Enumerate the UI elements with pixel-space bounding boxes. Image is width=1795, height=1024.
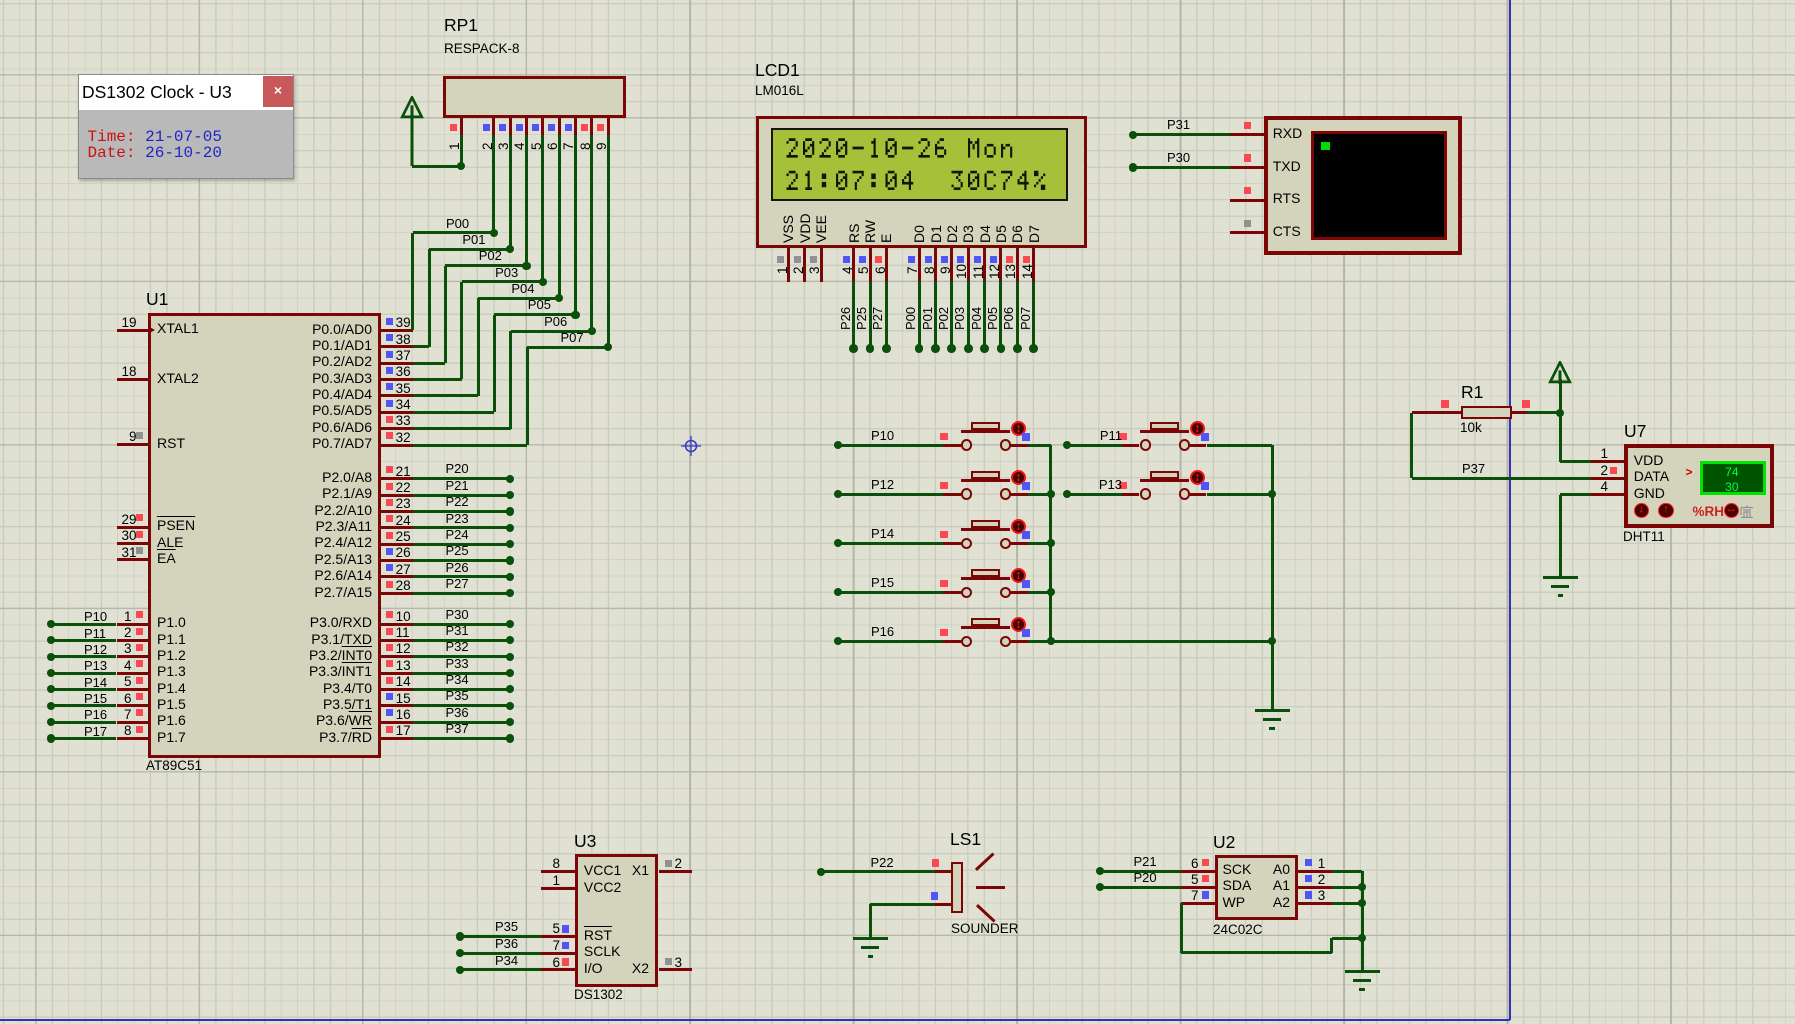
U3 pin 1 — [541, 887, 575, 890]
wires: P21 P20 to U2 — [1100, 870, 1181, 873]
net labels P10-P17 — [84, 610, 107, 623]
LCD1 pin 1 VSS — [781, 215, 795, 243]
LCD1 pin 14 D7 — [1027, 225, 1041, 243]
U1 pin 31 — [117, 558, 149, 561]
U1 pin 27 — [380, 575, 413, 578]
U1 pin 25 — [380, 543, 413, 546]
wire P30 to terminal TXD — [1133, 166, 1230, 169]
U1 pin 35 — [380, 394, 413, 397]
U1 pin 26 — [380, 559, 413, 562]
RP1 pin 6 — [558, 116, 561, 135]
U2 pin 6 SCK — [1181, 870, 1215, 873]
push button (row P16) — [943, 640, 961, 643]
wire P07: U1 pin 32 to RP1 pin 9 — [413, 444, 528, 447]
push button (row P13) — [1122, 493, 1140, 496]
wires: button matrix buses and junctions — [838, 444, 943, 447]
U1 pin 13 — [380, 672, 413, 675]
RP1 pin 9 — [607, 116, 610, 135]
wires: U1 P3.0-P3.7 stubs with dots — [413, 623, 511, 626]
wire P31 to terminal RXD — [1133, 133, 1230, 136]
resistor pack RP1 RESPACK-8 — [444, 16, 478, 35]
net label P37 — [1462, 462, 1485, 475]
U1 pin 29 — [117, 526, 149, 529]
U1 pin 16 — [380, 721, 413, 724]
LCD1 pin 13 D6 — [1010, 225, 1024, 243]
sounder LS1 — [950, 830, 981, 849]
power symbol (VCC arrow) feeding RP1 pin 1 — [0, 0, 1, 1]
U1 pin 9 — [117, 443, 149, 446]
wire P04: U1 pin 35 to RP1 pin 6 — [413, 394, 478, 397]
LCD1 pin 7 D0 — [912, 225, 926, 243]
U1 pin 1 P1.0 — [117, 623, 149, 626]
U1 pin 19 — [117, 329, 149, 332]
U1 pin 4 P1.3 — [117, 672, 149, 675]
U1 pin 21 — [380, 477, 413, 480]
U1 pin 28 — [380, 592, 413, 595]
U1 pin 24 — [380, 526, 413, 529]
RTC U3 DS1302 — [574, 832, 596, 851]
U3 pin 5 — [541, 935, 575, 938]
net label P20 — [1134, 871, 1157, 884]
wires: LCD data/control pins down to dots — [852, 281, 855, 349]
net label P31 — [1167, 118, 1190, 131]
U2 pin 3 A2 — [1298, 902, 1332, 905]
terminal pin RXD — [1230, 133, 1263, 136]
push button (row P12) — [943, 493, 961, 496]
U1 pin 2 P1.1 — [117, 639, 149, 642]
U1 pin 30 — [117, 542, 149, 545]
U3 pin 6 — [541, 968, 575, 971]
wire: power arrow to RP1 pin 1, junction — [412, 165, 461, 168]
U1 pin 7 P1.6 — [117, 721, 149, 724]
LCD1 pin 3 VEE — [814, 215, 828, 243]
U7 pin 1 VDD — [1591, 460, 1624, 463]
wire: U2 WP to ground bus — [1180, 903, 1183, 952]
net labels P30-P37 — [446, 608, 469, 621]
U1 pin 15 — [380, 704, 413, 707]
wire: LS1 to ground — [870, 903, 935, 906]
U1 pin 38 — [380, 345, 413, 348]
net labels P35 P36 P34 — [495, 920, 518, 933]
U2 pin 7 WP — [1181, 902, 1215, 905]
wire P05: U1 pin 34 to RP1 pin 7 — [413, 411, 495, 414]
ground symbol below U2 — [1345, 970, 1380, 973]
virtual terminal — [1264, 116, 1462, 255]
wire: U7 GND down — [1560, 493, 1591, 496]
U1 pin 17 — [380, 737, 413, 740]
LCD1 pin 12 D5 — [994, 225, 1008, 243]
wire P06: U1 pin 33 to RP1 pin 8 — [413, 427, 511, 430]
U1 pin 12 — [380, 655, 413, 658]
wire P02: U1 pin 37 to RP1 pin 4 — [413, 362, 446, 365]
RP1 pin 2 — [492, 116, 495, 135]
net labels for left button column — [871, 429, 894, 442]
resistor R1 10k — [1461, 383, 1483, 402]
U1 pin 10 — [380, 623, 413, 626]
RP1 pin 4 — [525, 116, 528, 135]
humidity sensor U7 DHT11 — [1624, 422, 1646, 441]
U2 pin 1 A0 — [1298, 870, 1332, 873]
LCD1 pin 4 RS — [847, 224, 861, 243]
terminal pin TXD — [1230, 166, 1263, 169]
U1 pin 33 — [380, 427, 413, 430]
RP1 pin 5 — [541, 116, 544, 135]
ground symbol below U7 — [1543, 576, 1578, 579]
ground symbol below button bus — [1255, 709, 1290, 712]
ground symbol below LS1 — [853, 937, 888, 940]
LCD1 pin 6 E — [879, 234, 893, 243]
terminal pin CTS — [1230, 231, 1263, 234]
wires: U2 A0 A1 A2 to ground bus — [1332, 870, 1363, 873]
push button (row P14) — [943, 542, 961, 545]
wires: U1 P2.0-P2.7 stubs with dots — [413, 477, 511, 480]
RP1 pin 1 — [460, 116, 463, 135]
wire P00: U1 pin 39 to RP1 pin 2 — [411, 233, 414, 331]
wires: U1 P1.0-P1.7 stubs with junction dots — [51, 623, 117, 626]
wire P01: U1 pin 38 to RP1 pin 3 — [413, 345, 429, 348]
U1 pin 3 P1.2 — [117, 655, 149, 658]
U3 pin 2 X1 — [659, 870, 692, 873]
EEPROM U2 24C02C — [1213, 833, 1235, 852]
wire P37: R1 to U7 DATA — [1410, 413, 1413, 479]
net label P22 — [871, 856, 894, 869]
U1 pin 6 P1.5 — [117, 704, 149, 707]
LCD1 pin 9 D2 — [945, 225, 959, 243]
U1 pin 37 — [380, 362, 413, 365]
RP1 pin 3 — [509, 116, 512, 135]
push button (row P10) — [943, 444, 961, 447]
U1 pin 22 — [380, 494, 413, 497]
push button (row P11) — [1122, 444, 1140, 447]
power symbol (VCC arrow) above U7 — [0, 0, 1, 1]
LCD1 pin 10 D3 — [961, 225, 975, 243]
U3 pin 8 — [541, 870, 575, 873]
U1 pin 8 P1.7 — [117, 737, 149, 740]
wires: P35 P36 P34 to U3 — [460, 935, 542, 938]
U1 pin 23 — [380, 510, 413, 513]
sheet border (blue frame line) — [1509, 0, 1511, 1020]
net labels P11 P13 — [1100, 429, 1122, 442]
push button (row P15) — [943, 591, 961, 594]
U1 pin 36 — [380, 378, 413, 381]
origin marker (blue crosshair) — [0, 0, 1, 1]
U1 pin 34 — [380, 411, 413, 414]
U7 pin 2 DATA — [1591, 477, 1624, 480]
wire P22 to LS1 — [821, 870, 935, 873]
U1 pin 14 — [380, 688, 413, 691]
net labels P26 P25 P27 P00-P07 (vertical) — [839, 306, 852, 329]
LCD1 pin 11 D4 — [978, 225, 992, 243]
U2 pin 5 SDA — [1181, 886, 1215, 889]
LCD display LCD1 LM016L — [755, 61, 800, 80]
U1 pin 18 — [117, 378, 149, 381]
LCD1 pin 5 RW — [863, 220, 877, 243]
popup window: DS1302 Clock - U3 — [78, 74, 294, 179]
microcontroller U1 AT89C51 — [146, 290, 168, 309]
terminal pin RTS — [1230, 199, 1263, 202]
U1 pin 39 — [380, 329, 413, 332]
LCD1 pin 8 D1 — [929, 225, 943, 243]
LCD1 pin 2 VDD — [798, 213, 812, 243]
U3 pin 7 — [541, 952, 575, 955]
net label P21 — [1134, 855, 1157, 868]
net label P30 — [1167, 151, 1190, 164]
U1 pin 32 — [380, 444, 413, 447]
wire: R1 to VDD rail and U7 VDD — [1527, 411, 1560, 414]
U1 pin 5 P1.4 — [117, 688, 149, 691]
U3 pin 3 X2 — [659, 968, 692, 971]
U1 pin 11 — [380, 639, 413, 642]
U2 pin 2 A1 — [1298, 886, 1332, 889]
RP1 pin 7 — [574, 116, 577, 135]
net labels P00-P07 — [446, 217, 469, 230]
wire P03: U1 pin 36 to RP1 pin 5 — [413, 378, 462, 381]
net labels P20-P27 — [446, 462, 469, 475]
RP1 pin 8 — [590, 116, 593, 135]
U7 pin 4 GND — [1591, 493, 1624, 496]
